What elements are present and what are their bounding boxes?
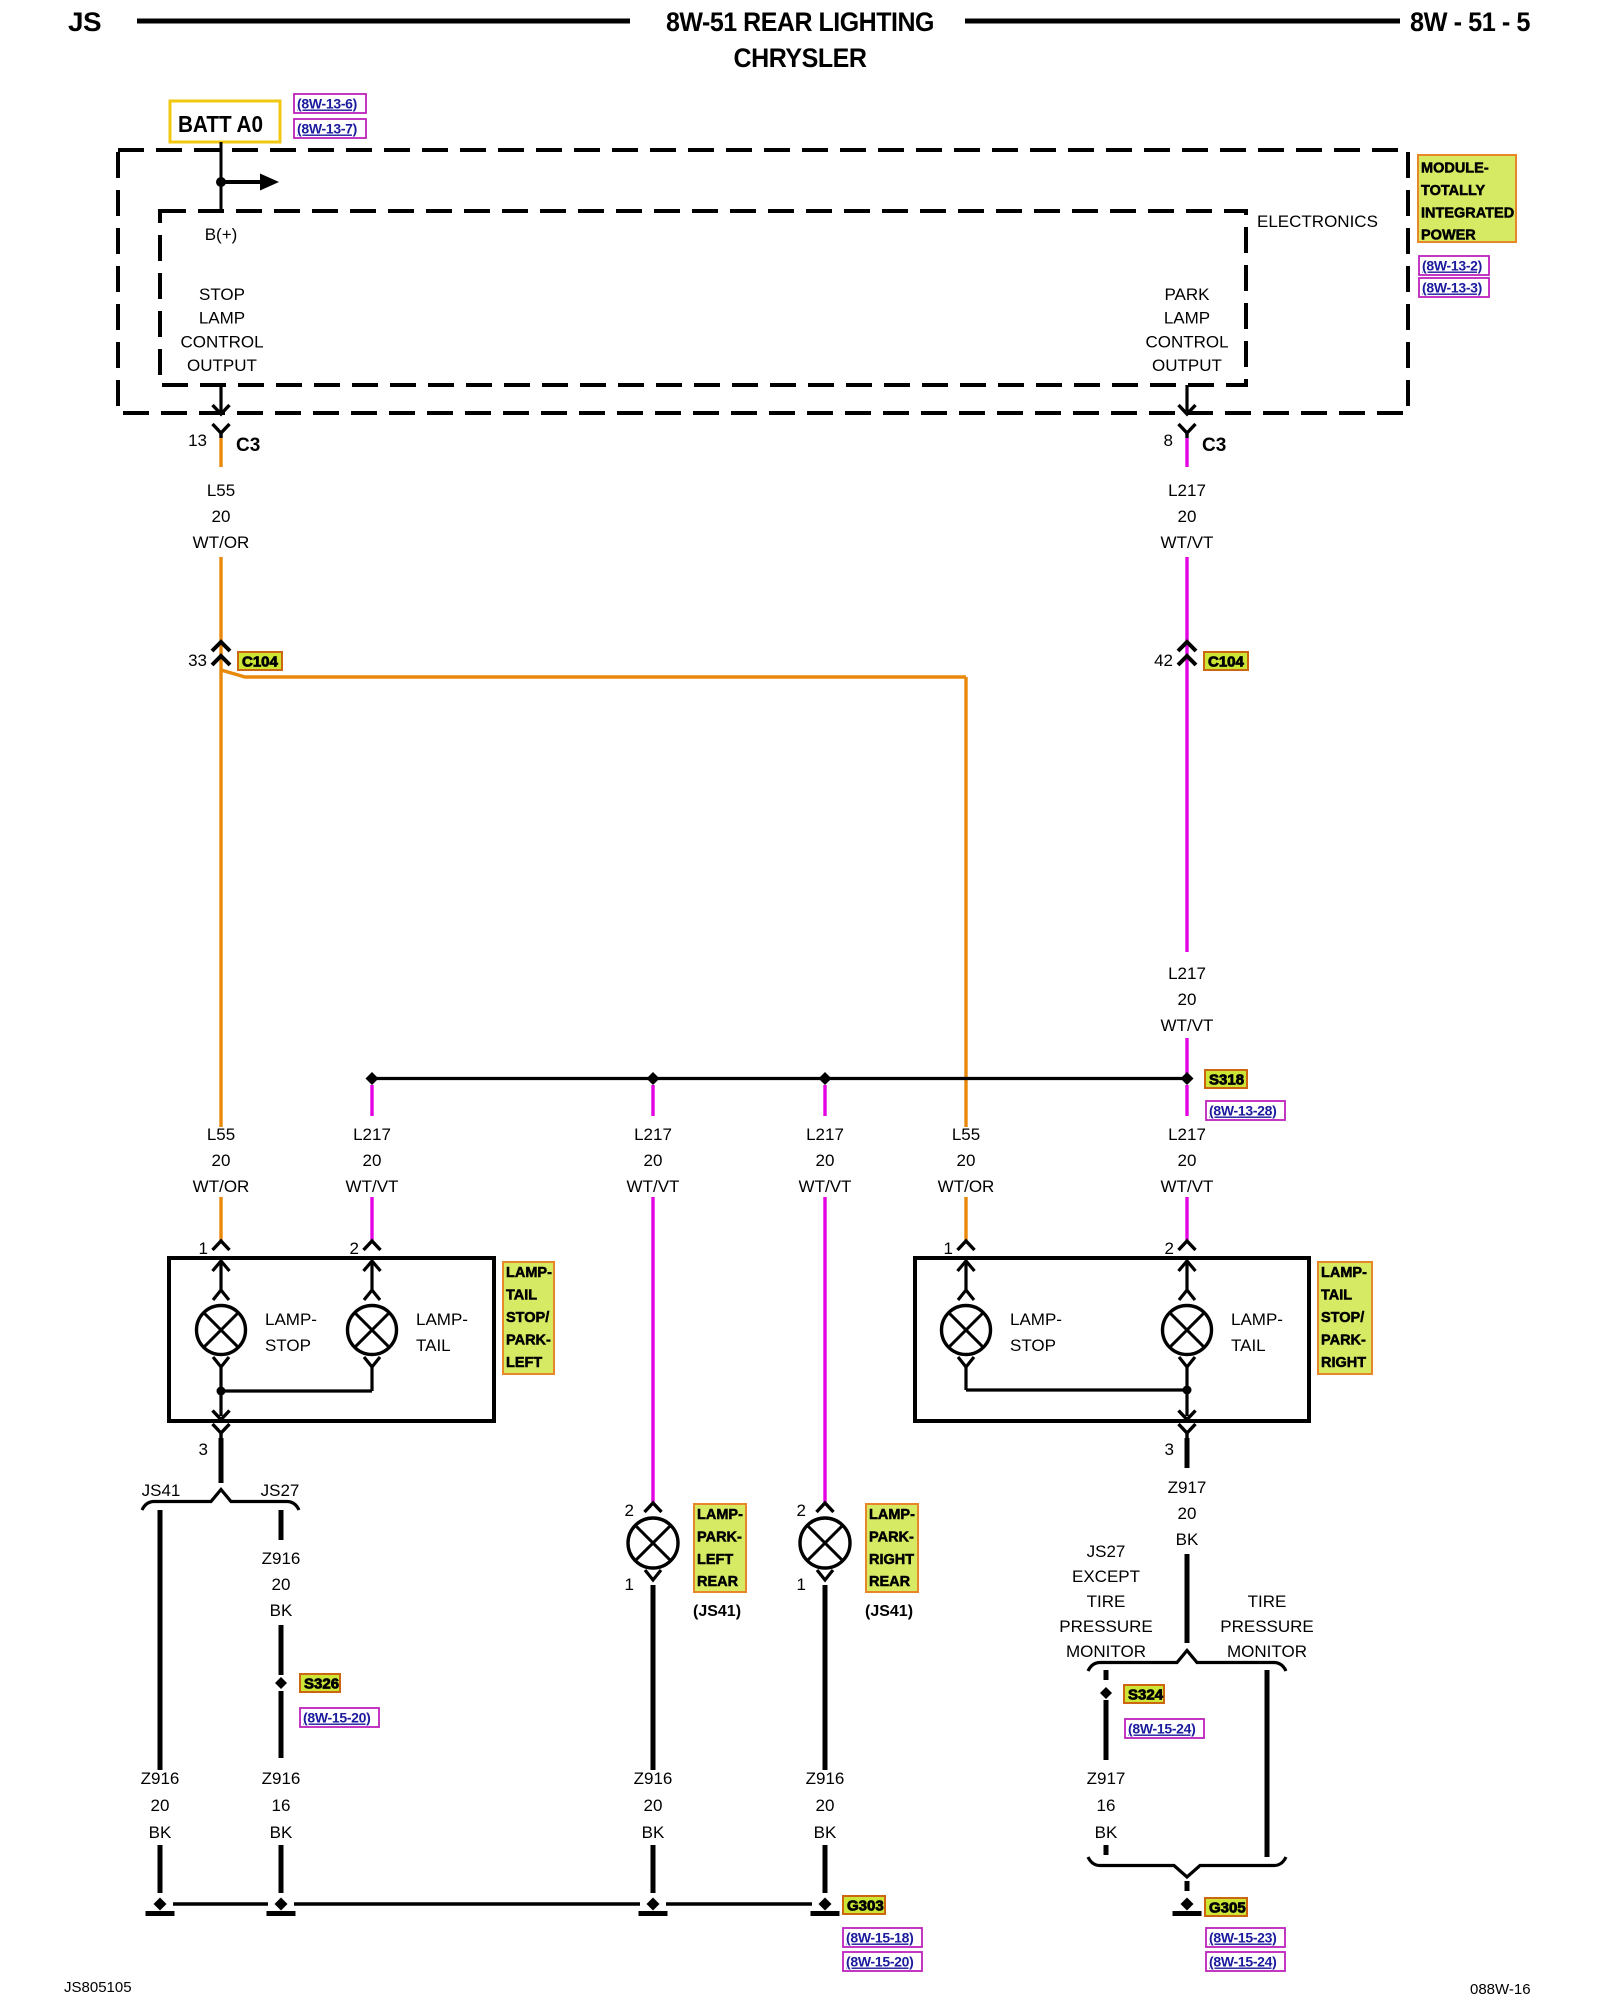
svg-text:CONTROL: CONTROL — [180, 332, 263, 351]
svg-text:WT/VT: WT/VT — [1161, 1177, 1214, 1196]
pin 1 right lamp — [958, 1241, 975, 1250]
wire BATT A0 to B(+) — [220, 142, 223, 211]
svg-text:LEFT: LEFT — [697, 1552, 733, 1568]
svg-text:C3: C3 — [1202, 435, 1226, 456]
connector C3 pin 8 — [1179, 424, 1196, 433]
wire L217 to park-left bulb — [651, 1197, 654, 1502]
wire ground bus segment 2 — [294, 1902, 640, 1905]
wire L217 to park-right bulb — [823, 1197, 826, 1502]
svg-text:20: 20 — [1178, 507, 1197, 526]
svg-text:13: 13 — [188, 431, 207, 450]
label LAMP-TAIL STOP/PARK-LEFT — [503, 1262, 554, 1374]
svg-text:2: 2 — [350, 1239, 359, 1258]
svg-text:PARK-: PARK- — [1321, 1333, 1366, 1349]
svg-text:1: 1 — [797, 1575, 806, 1594]
svg-text:TAIL: TAIL — [506, 1288, 537, 1304]
lamp assembly left box — [169, 1258, 494, 1421]
svg-text:42: 42 — [1154, 651, 1173, 670]
pin 1 park-left bulb — [645, 1570, 661, 1580]
wire stub to L217 label col 653 — [651, 1085, 654, 1116]
svg-text:PRESSURE: PRESSURE — [1059, 1617, 1153, 1636]
wire stub below S318 — [1185, 1085, 1188, 1116]
wire TPM branch — [1265, 1670, 1270, 1857]
svg-text:20: 20 — [363, 1151, 382, 1170]
fuse BATT A0 — [170, 101, 280, 142]
wire ground bus segment 1 — [173, 1902, 268, 1905]
svg-text:STOP/: STOP/ — [1321, 1310, 1364, 1326]
svg-text:PARK: PARK — [1164, 285, 1210, 304]
svg-text:L217: L217 — [1168, 481, 1206, 500]
svg-text:BK: BK — [1095, 1823, 1118, 1842]
svg-text:LAMP-: LAMP- — [416, 1310, 468, 1329]
wire Z916 to S326 — [279, 1625, 284, 1675]
wire L55 left down — [219, 676, 222, 1127]
lamp assembly right box — [915, 1258, 1309, 1421]
svg-text:L217: L217 — [634, 1125, 672, 1144]
wire Z916 JS41 branch — [158, 1510, 163, 1770]
svg-text:S324: S324 — [1128, 1687, 1164, 1704]
wire L217 to right lamp pin 2 — [1185, 1197, 1188, 1240]
svg-text:PARK-: PARK- — [869, 1529, 914, 1545]
svg-text:(8W-13-2): (8W-13-2) — [1422, 258, 1482, 274]
svg-text:MODULE-: MODULE- — [1421, 161, 1489, 177]
svg-text:(JS41): (JS41) — [865, 1603, 913, 1620]
svg-text:LEFT: LEFT — [506, 1355, 542, 1371]
header rule right — [965, 19, 1400, 24]
svg-text:JS27: JS27 — [1087, 1542, 1126, 1561]
wire exit arrow left box — [219, 1391, 222, 1416]
svg-text:20: 20 — [1178, 1504, 1197, 1523]
wire Z916 col 281 to ground — [279, 1845, 284, 1893]
svg-text:2: 2 — [1165, 1239, 1174, 1258]
svg-text:Z916: Z916 — [634, 1769, 673, 1788]
svg-text:(8W-15-20): (8W-15-20) — [303, 1710, 371, 1726]
pin 3 left lamp — [213, 1424, 230, 1433]
wire L55 branch down to right lamp — [964, 677, 967, 1127]
lamp tail bottom fork left — [364, 1357, 380, 1367]
svg-text:BATT A0: BATT A0 — [178, 111, 263, 137]
svg-text:20: 20 — [1178, 1151, 1197, 1170]
electronics inner dashed box — [160, 211, 1246, 385]
svg-text:B(+): B(+) — [205, 225, 238, 244]
splice S318 — [1181, 1072, 1194, 1085]
svg-text:1: 1 — [199, 1239, 208, 1258]
svg-text:TAIL: TAIL — [1321, 1288, 1352, 1304]
svg-text:S326: S326 — [304, 1676, 339, 1693]
svg-text:20: 20 — [816, 1151, 835, 1170]
ground G305 — [1181, 1898, 1194, 1911]
svg-text:L217: L217 — [806, 1125, 844, 1144]
svg-text:3: 3 — [1165, 1440, 1174, 1459]
svg-text:C104: C104 — [242, 654, 279, 671]
svg-text:3: 3 — [199, 1440, 208, 1459]
svg-text:BK: BK — [1176, 1530, 1199, 1549]
svg-text:LAMP-: LAMP- — [265, 1310, 317, 1329]
wire Z916 from pin 3 — [219, 1438, 224, 1483]
svg-text:20: 20 — [957, 1151, 976, 1170]
svg-text:WT/OR: WT/OR — [193, 533, 250, 552]
wire stop lamp output to C3 — [219, 385, 222, 411]
lamp park-left rear bulb — [628, 1518, 678, 1568]
svg-text:BK: BK — [814, 1823, 837, 1842]
link 8W-15-23 — [1206, 1928, 1285, 1947]
svg-text:LAMP-: LAMP- — [697, 1507, 743, 1523]
wire L217 WT/VT from C3 — [1185, 438, 1188, 467]
wire Z916 below S326 — [279, 1691, 284, 1758]
svg-text:16: 16 — [272, 1796, 291, 1815]
svg-text:RIGHT: RIGHT — [1321, 1355, 1366, 1371]
svg-text:INTEGRATED: INTEGRATED — [1421, 205, 1514, 221]
wire Z916 park-right down — [823, 1585, 828, 1770]
wire S318 splice bus — [372, 1077, 1187, 1080]
svg-text:Z916: Z916 — [262, 1549, 301, 1568]
svg-text:L217: L217 — [1168, 964, 1206, 983]
svg-text:CONTROL: CONTROL — [1145, 332, 1228, 351]
svg-text:MONITOR: MONITOR — [1227, 1642, 1307, 1661]
brace option split right — [1088, 1651, 1286, 1672]
link 8W-15-24 S324 — [1125, 1719, 1204, 1738]
wire L217 to left lamp pin 2 — [370, 1197, 373, 1240]
wire Z917 below S324 — [1104, 1700, 1109, 1760]
svg-text:20: 20 — [1178, 990, 1197, 1009]
wire stub to L217 label col 825 — [823, 1085, 826, 1116]
lamp park-right rear bulb — [800, 1518, 850, 1568]
ground point col 281 — [275, 1898, 288, 1911]
connector C104 pin 33 — [212, 642, 230, 651]
svg-text:BK: BK — [270, 1823, 293, 1842]
svg-text:JS805105: JS805105 — [64, 1979, 132, 1996]
svg-text:G305: G305 — [1209, 1900, 1246, 1917]
lamp stop bottom fork left — [213, 1357, 229, 1367]
svg-text:WT/OR: WT/OR — [193, 1177, 250, 1196]
svg-text:088W-16: 088W-16 — [1470, 1981, 1531, 1998]
svg-text:LAMP-: LAMP- — [1231, 1310, 1283, 1329]
svg-text:LAMP-: LAMP- — [506, 1265, 552, 1281]
svg-text:20: 20 — [644, 1151, 663, 1170]
brace JS41/JS27 split — [142, 1490, 299, 1511]
lamp-tail bulb left — [348, 1306, 397, 1355]
wire lamp internal join right — [966, 1388, 1187, 1391]
svg-text:(JS41): (JS41) — [693, 1603, 741, 1620]
svg-text:LAMP-: LAMP- — [869, 1507, 915, 1523]
svg-text:G303: G303 — [847, 1898, 884, 1915]
svg-text:STOP: STOP — [199, 285, 245, 304]
splice S326 — [275, 1677, 287, 1689]
svg-text:(8W-13-3): (8W-13-3) — [1422, 280, 1482, 296]
svg-text:REAR: REAR — [697, 1574, 739, 1590]
wire park lamp output to C3 — [1185, 385, 1188, 411]
svg-text:BK: BK — [149, 1823, 172, 1842]
wire Z916 col 653 to ground — [651, 1845, 656, 1893]
lamp stop entry arrow left — [213, 1261, 230, 1271]
wire L55 branch corner — [221, 670, 966, 677]
wire stub dashed to S324 — [1104, 1670, 1109, 1686]
svg-text:(8W-15-24): (8W-15-24) — [1128, 1721, 1196, 1737]
svg-text:WT/OR: WT/OR — [938, 1177, 995, 1196]
svg-text:STOP: STOP — [1010, 1336, 1056, 1355]
svg-text:STOP/: STOP/ — [506, 1310, 549, 1326]
wire L217 to S318 — [1185, 1038, 1188, 1078]
lamp-tail bulb right — [1163, 1306, 1212, 1355]
svg-text:TAIL: TAIL — [1231, 1336, 1266, 1355]
svg-text:PARK-: PARK- — [506, 1333, 551, 1349]
svg-text:1: 1 — [944, 1239, 953, 1258]
svg-text:(8W-15-24): (8W-15-24) — [1209, 1954, 1277, 1970]
svg-text:2: 2 — [625, 1501, 634, 1520]
svg-text:8: 8 — [1164, 431, 1173, 450]
wire Z917 from pin 3 — [1185, 1438, 1190, 1468]
svg-text:TIRE: TIRE — [1248, 1592, 1287, 1611]
pin 2 left lamp — [364, 1241, 381, 1250]
svg-text:BK: BK — [642, 1823, 665, 1842]
svg-text:(8W-13-6): (8W-13-6) — [297, 96, 357, 112]
svg-text:8W-51 REAR LIGHTING: 8W-51 REAR LIGHTING — [666, 7, 934, 37]
pin 3 right lamp — [1179, 1424, 1196, 1433]
wire Z916 JS27 stub — [279, 1510, 284, 1540]
svg-text:8W - 51 - 5: 8W - 51 - 5 — [1410, 7, 1530, 37]
svg-text:LAMP: LAMP — [199, 309, 245, 328]
link 8W-13-7 — [294, 119, 366, 138]
svg-text:MONITOR: MONITOR — [1066, 1642, 1146, 1661]
svg-text:20: 20 — [272, 1575, 291, 1594]
link 8W-15-20 S326 — [300, 1708, 379, 1727]
junction diamond at park-right feed — [819, 1072, 832, 1085]
svg-text:33: 33 — [188, 651, 207, 670]
label LAMP-PARK-RIGHT REAR — [866, 1504, 918, 1592]
svg-text:BK: BK — [270, 1601, 293, 1620]
svg-text:1: 1 — [625, 1575, 634, 1594]
svg-text:WT/VT: WT/VT — [1161, 533, 1214, 552]
svg-text:L55: L55 — [207, 1125, 235, 1144]
svg-text:JS41: JS41 — [142, 1481, 181, 1500]
svg-text:RIGHT: RIGHT — [869, 1552, 914, 1568]
header rule left — [137, 19, 630, 24]
svg-text:WT/VT: WT/VT — [627, 1177, 680, 1196]
svg-text:20: 20 — [212, 1151, 231, 1170]
brace option merge right — [1088, 1857, 1286, 1877]
link 8W-13-6 — [294, 94, 366, 113]
junction B(+) node — [216, 177, 226, 187]
svg-text:REAR: REAR — [869, 1574, 911, 1590]
pin 2 park-right bulb — [817, 1503, 834, 1512]
pin 1 park-right bulb — [817, 1570, 833, 1580]
lamp stop entry arrow right — [958, 1261, 975, 1271]
svg-text:JS27: JS27 — [261, 1481, 300, 1500]
label LAMP-TAIL STOP/PARK-RIGHT — [1318, 1262, 1372, 1374]
svg-text:20: 20 — [212, 507, 231, 526]
pin 2 park-left bulb — [645, 1503, 662, 1512]
svg-text:L217: L217 — [1168, 1125, 1206, 1144]
junction diamond at left lamp tail feed — [366, 1072, 379, 1085]
svg-text:20: 20 — [151, 1796, 170, 1815]
ground point col 160 — [154, 1898, 167, 1911]
link 8W-15-20 G303 — [843, 1952, 922, 1971]
wire Z917 to option brace — [1185, 1554, 1190, 1643]
lamp-stop bulb right — [942, 1306, 991, 1355]
module label MODULE-TOTALLY INTEGRATED POWER — [1418, 155, 1516, 242]
svg-text:CHRYSLER: CHRYSLER — [734, 43, 867, 73]
svg-text:(8W-13-7): (8W-13-7) — [297, 121, 357, 137]
svg-text:L217: L217 — [353, 1125, 391, 1144]
junction diamond at park-left feed — [647, 1072, 660, 1085]
svg-text:16: 16 — [1097, 1796, 1116, 1815]
splice S324 — [1100, 1687, 1112, 1699]
arrow B(+) feed — [221, 180, 262, 184]
wire exit arrow right box — [1185, 1390, 1188, 1416]
link 8W-13-3 — [1419, 278, 1489, 297]
svg-text:L55: L55 — [952, 1125, 980, 1144]
svg-text:C104: C104 — [1208, 654, 1245, 671]
lamp tail entry arrow left — [364, 1261, 381, 1271]
svg-text:LAMP-: LAMP- — [1321, 1265, 1367, 1281]
wire ground bus segment 3 — [666, 1902, 812, 1905]
connector C104 pin 42 — [1178, 642, 1196, 651]
svg-text:Z916: Z916 — [806, 1769, 845, 1788]
lamp tail bottom fork right — [1179, 1357, 1195, 1367]
link 8W-13-2 — [1419, 256, 1489, 275]
wire Z916 col 160 to ground — [158, 1845, 163, 1893]
svg-text:Z917: Z917 — [1168, 1478, 1207, 1497]
svg-text:20: 20 — [816, 1796, 835, 1815]
link 8W-13-28 — [1206, 1101, 1285, 1120]
svg-text:TAIL: TAIL — [416, 1336, 451, 1355]
wire L55 WT/OR from C3 — [219, 438, 222, 467]
svg-text:TIRE: TIRE — [1087, 1592, 1126, 1611]
wire stub dashed to G305 — [1185, 1881, 1190, 1896]
svg-text:C3: C3 — [236, 435, 260, 456]
pin 2 right lamp — [1179, 1241, 1196, 1250]
svg-text:(8W-13-28): (8W-13-28) — [1209, 1103, 1277, 1119]
wire L55 WT/OR to C104 — [219, 557, 222, 676]
link 8W-15-18 — [843, 1928, 922, 1947]
svg-text:(8W-15-18): (8W-15-18) — [846, 1930, 914, 1946]
svg-text:STOP: STOP — [265, 1336, 311, 1355]
svg-text:L55: L55 — [207, 481, 235, 500]
svg-text:ELECTRONICS: ELECTRONICS — [1257, 212, 1378, 231]
svg-text:JS: JS — [68, 7, 101, 37]
wire lamp internal join left — [221, 1389, 372, 1392]
wire Z916 col 825 to ground — [823, 1845, 828, 1893]
svg-text:POWER: POWER — [1421, 228, 1476, 244]
svg-text:S318: S318 — [1209, 1072, 1244, 1089]
lamp stop bottom fork right — [958, 1357, 974, 1367]
svg-text:Z916: Z916 — [141, 1769, 180, 1788]
svg-text:PARK-: PARK- — [697, 1529, 742, 1545]
svg-text:LAMP: LAMP — [1164, 309, 1210, 328]
svg-text:PRESSURE: PRESSURE — [1220, 1617, 1314, 1636]
wire stub to L217 label col 372 — [370, 1085, 373, 1116]
wire L55 to right lamp pin 1 — [964, 1197, 967, 1240]
lamp-stop bulb left — [197, 1306, 246, 1355]
svg-text:20: 20 — [644, 1796, 663, 1815]
svg-text:WT/VT: WT/VT — [346, 1177, 399, 1196]
wire stub dashed above merge brace — [1104, 1845, 1109, 1860]
lamp tail entry arrow right — [1179, 1261, 1196, 1271]
svg-text:WT/VT: WT/VT — [799, 1177, 852, 1196]
svg-text:OUTPUT: OUTPUT — [1152, 356, 1222, 375]
ground G303 — [819, 1898, 832, 1911]
svg-text:LAMP-: LAMP- — [1010, 1310, 1062, 1329]
connector C3 pin 13 — [213, 424, 230, 433]
svg-text:(8W-15-20): (8W-15-20) — [846, 1954, 914, 1970]
module TIPM outer dashed box — [118, 150, 1408, 413]
svg-text:Z916: Z916 — [262, 1769, 301, 1788]
label LAMP-PARK-LEFT REAR — [694, 1504, 746, 1592]
svg-text:2: 2 — [797, 1501, 806, 1520]
svg-text:EXCEPT: EXCEPT — [1072, 1567, 1140, 1586]
ground point col 653 — [647, 1898, 660, 1911]
svg-text:WT/VT: WT/VT — [1161, 1016, 1214, 1035]
wire Z916 park-left down — [651, 1585, 656, 1770]
svg-text:TOTALLY: TOTALLY — [1421, 183, 1486, 199]
svg-text:(8W-15-23): (8W-15-23) — [1209, 1930, 1277, 1946]
svg-text:Z917: Z917 — [1087, 1769, 1126, 1788]
svg-text:OUTPUT: OUTPUT — [187, 356, 257, 375]
link 8W-15-24 G305 — [1206, 1952, 1285, 1971]
wire L55 to left lamp pin 1 — [219, 1197, 222, 1240]
wire L217 WT/VT to C104 — [1185, 557, 1188, 952]
pin 1 left lamp — [213, 1241, 230, 1250]
